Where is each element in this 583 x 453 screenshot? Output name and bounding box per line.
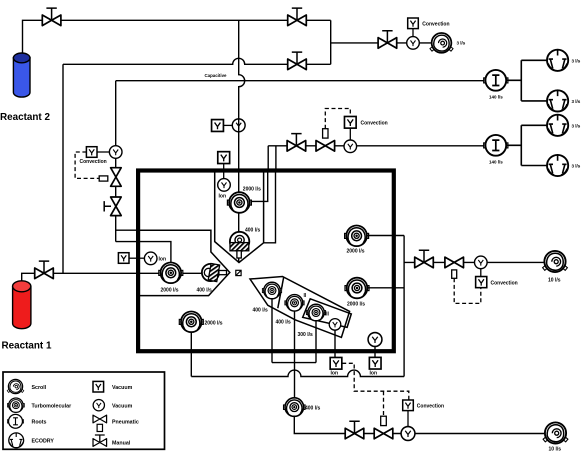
gauge: circle vacuum gauge on column	[109, 146, 122, 159]
pump: chamber turbo right-upper 2000 l/s	[345, 226, 369, 247]
cylinder: Reactant 2 bottle	[13, 53, 30, 97]
svg-text:400 l/s: 400 l/s	[253, 308, 269, 314]
pump: left source turbo 2000 l/s	[159, 263, 183, 284]
svg-text:Ion: Ion	[331, 371, 339, 377]
gauge: square vacuum gauge (Convection) left column	[86, 147, 97, 158]
wire: link convection gauge pair top right	[412, 29, 414, 38]
svg-text:Ion: Ion	[219, 194, 227, 200]
svg-text:Pneumatic: Pneumatic	[112, 419, 139, 425]
pump: detector turbo III 300 l/s	[306, 304, 325, 320]
svg-text:Convection: Convection	[361, 120, 388, 126]
wire: branch y=241.6 to source turbo inlet	[116, 242, 171, 263]
dashed interlock: backing row gauge to pneumatic valve	[325, 109, 350, 129]
gauge: ion gauge left funnel	[144, 252, 157, 265]
valve: manual valve right row	[415, 250, 434, 267]
pump: ecodry pump 1 (3 l/s)	[547, 50, 568, 71]
wire: right pump row y=262.4 to scroll pump	[404, 261, 544, 263]
detector: stage III box	[303, 299, 352, 328]
pump: left 400 l/s pump with hatched flange	[202, 263, 227, 281]
svg-text:10 l/s: 10 l/s	[549, 446, 562, 452]
wire: left wall gauge link	[129, 257, 144, 259]
pump: scroll pump 10 l/s (right)	[543, 251, 568, 272]
cylinder: Reactant 1 bottle	[13, 281, 31, 329]
dashed interlock: convection gauge to pneumatic valve	[75, 152, 99, 178]
detector: stage I/II separator	[278, 277, 284, 308]
svg-text:3 l/s: 3 l/s	[572, 58, 581, 63]
svg-text:400 l/s: 400 l/s	[276, 320, 292, 326]
legend valve: manual valve symbol	[93, 435, 107, 446]
valve: manual valve bottom row	[345, 421, 364, 439]
valve: pneumatic valve right row (actuator below)	[445, 257, 464, 278]
svg-text:2000 l/s: 2000 l/s	[347, 301, 365, 307]
svg-text:2000 l/s: 2000 l/s	[205, 320, 223, 326]
pump: chamber turbo bottom-left 2000 l/s	[179, 312, 203, 333]
svg-text:400 l/s: 400 l/s	[197, 288, 213, 294]
legend valve: pneumatic valve symbol	[93, 415, 107, 431]
legend pump: turbomolecular symbol	[8, 398, 25, 412]
svg-text:3 l/s: 3 l/s	[572, 123, 581, 128]
valve: manual valve on backing row	[287, 134, 306, 152]
pump: detector turbo II 400 l/s	[285, 295, 304, 311]
svg-text:Manual: Manual	[112, 441, 131, 447]
valve V-R1 manual on reactant1 line	[35, 261, 54, 279]
wire: bottom convection gauge link	[407, 411, 409, 427]
node: sample target square	[236, 270, 241, 275]
dashed interlock: ion gauge to bottom pneumatic valve and convection	[342, 363, 409, 416]
wire: branch y=230.2 into chamber (source funnel top)	[116, 229, 211, 231]
wire: top-wall square gauge stem	[223, 164, 225, 179]
gauge: circle vacuum gauge top right	[407, 37, 420, 50]
detector: outer differential stage polygon	[250, 277, 350, 338]
wire: junction drop x=330.7 between parallel valves	[330, 20, 332, 64]
gauge: square ion gauge bottom 1	[330, 357, 342, 369]
svg-text:140 l/s: 140 l/s	[489, 159, 503, 164]
legend gauge: square vacuum gauge	[93, 381, 104, 392]
svg-text:Reactant 2: Reactant 2	[0, 112, 50, 123]
valve V-R2 manual on reactant2 line	[42, 8, 61, 26]
wire: bottom-left turbo drop x=191.3	[190, 332, 192, 377]
wire: link convection gauge to column gauge	[97, 151, 109, 153]
valve: pneumatic valve on backing row	[316, 129, 335, 151]
gauge: square vacuum gauge on left wall	[118, 253, 129, 264]
chamber: main vacuum chamber wall	[138, 171, 394, 352]
wire: roots1 to ecodry pair manifold	[506, 60, 547, 101]
legend pump: scroll symbol	[7, 379, 24, 393]
wire: detector backing bus	[272, 362, 316, 364]
valve: manual valve on pump-out row	[378, 31, 397, 49]
svg-text:Convection: Convection	[422, 21, 449, 27]
gauge: square vacuum gauge (Convection) top right	[408, 18, 419, 29]
gauge: square vacuum gauge (Convection) bottom	[403, 400, 414, 411]
svg-text:Reactant 1: Reactant 1	[2, 340, 52, 351]
svg-text:Roots: Roots	[32, 420, 47, 426]
pump: ecodry pump 3 (3 l/s)	[547, 115, 568, 136]
pump: roots pump 2 (140 l/s)	[484, 135, 508, 156]
wire: backing row y=145.8 from chamber lines to roots pump 2	[268, 145, 485, 147]
gauge: square vacuum gauge (Convection) backing row	[344, 116, 356, 128]
wire: capacitive gauge line y=80.7 to roots pump 1	[116, 80, 485, 82]
wire: pump-out row y=42.9 to scroll pump	[331, 42, 432, 44]
pump: ecodry pump 2 (3 l/s)	[547, 90, 568, 111]
gauge: circle vacuum gauge right row	[475, 256, 488, 269]
gauge: square vacuum gauge on beam line	[212, 120, 224, 132]
svg-text:Convection: Convection	[417, 404, 444, 410]
svg-text:Capacitive: Capacitive	[205, 73, 228, 78]
gauge: circle vacuum gauge on beam line	[232, 119, 245, 132]
wire: reactant2 riser and top header y=20	[23, 20, 331, 53]
svg-text:ECODRY: ECODRY	[32, 439, 55, 445]
wire: bottom row from turbo to scroll pump	[294, 416, 544, 434]
wire: beam line gauge pair link	[224, 124, 233, 126]
pump: detector turbo I 400 l/s	[262, 282, 281, 298]
valve: pneumatic valve bottom row (actuator above)	[374, 416, 393, 439]
gauge: square ion gauge bottom 2	[369, 357, 381, 369]
wire: reactant1 line y=273.3 into chamber	[22, 273, 206, 281]
valve V2 manual (lower parallel)	[288, 52, 307, 70]
wire: source turbo exhaust link x=267.7	[250, 172, 268, 201]
pump: ecodry pump 4 (3 l/s)	[547, 155, 568, 176]
funnel: left source funnel (horizontal)	[140, 230, 230, 295]
gauge: circle vacuum gauge bottom row	[401, 427, 415, 441]
wire: roots2 to ecodry pair manifold	[506, 125, 547, 165]
wire: long bottom return line y=376.5 with jumps	[191, 370, 404, 376]
svg-text:3 l/s: 3 l/s	[572, 99, 581, 104]
wire: detector pump III drop line	[315, 320, 317, 363]
wire: right turbo lower exhaust	[367, 287, 404, 289]
wire: detector pump II drop line	[294, 310, 296, 399]
wire: gas inlet column x=115.7	[115, 81, 117, 242]
wire: beam inlet line x=238.7 with jump over capacitive line	[239, 20, 245, 261]
gauge: circle vacuum gauge backing row	[344, 140, 357, 153]
gauge: circle vacuum gauge stage III	[329, 319, 341, 331]
svg-text:400 l/s: 400 l/s	[305, 405, 321, 411]
svg-text:2000 l/s: 2000 l/s	[243, 187, 261, 193]
pump: scroll pump 3 l/s (top)	[430, 33, 453, 53]
wire: left feed drop x=63 to reactant1 line	[62, 64, 64, 273]
valve: manual valve on column (vertical)	[104, 197, 121, 216]
svg-text:300 l/s: 300 l/s	[298, 332, 314, 338]
gauge: circle vacuum gauge chamber right	[368, 333, 382, 347]
dashed interlock: right row gauge to pneumatic valve	[454, 278, 481, 303]
svg-text:2000 l/s: 2000 l/s	[347, 248, 365, 254]
wire: stage III gauge drop	[334, 330, 336, 358]
valve: pneumatic valve on column (vertical)	[99, 168, 121, 187]
svg-text:Ion: Ion	[370, 371, 378, 377]
svg-text:400 l/s: 400 l/s	[245, 228, 261, 234]
pump: source 400 l/s pump with hatched flange (top funnel)	[230, 232, 249, 258]
funnel: source funnel (top, vertical)	[215, 172, 264, 263]
svg-text:Turbomolecular: Turbomolecular	[32, 404, 72, 410]
wire: chamber right gauge drop	[374, 347, 376, 358]
gauge: ion gauge in source funnel	[218, 179, 231, 192]
wire: right row gauge pair link	[480, 269, 482, 277]
svg-text:140 l/s: 140 l/s	[489, 94, 503, 99]
gauge: square vacuum gauge (Convection) right row	[476, 277, 487, 288]
pump: chamber turbo right-lower 2000 l/s	[345, 278, 369, 299]
wire: parallel bypass line y=64.3 with jump over beam line	[63, 58, 331, 64]
gauge: square vacuum gauge on chamber lid	[218, 152, 230, 164]
legend pump: ecodry symbol	[9, 433, 24, 448]
wire: detector pump I drop line	[271, 298, 273, 363]
svg-text:Convection: Convection	[80, 159, 107, 165]
pump: detector backing turbo 400 l/s (bottom)	[284, 398, 306, 417]
svg-text:2000 l/s: 2000 l/s	[161, 288, 179, 294]
wire: chamber risers x=268.2 and x=275.9	[268, 146, 276, 172]
pump: roots pump 1 (140 l/s)	[484, 70, 508, 91]
svg-text:Convection: Convection	[491, 280, 518, 286]
svg-text:Vacuum: Vacuum	[112, 404, 133, 410]
wire: funnel roughing link x=275.5	[264, 172, 276, 243]
svg-text:III: III	[325, 312, 330, 318]
legend: border box	[3, 372, 165, 449]
wire: right turbo upper exhaust	[367, 235, 404, 237]
svg-text:Ion: Ion	[159, 257, 167, 263]
svg-text:Vacuum: Vacuum	[112, 385, 133, 391]
svg-text:Scroll: Scroll	[32, 385, 47, 391]
pump: scroll pump 10 l/s (bottom)	[543, 422, 568, 443]
svg-text:3 l/s: 3 l/s	[457, 40, 466, 45]
valve V1 manual (upper parallel)	[288, 8, 307, 26]
wire: link square gauge to circle gauge backing row	[349, 128, 351, 140]
svg-text:3 l/s: 3 l/s	[572, 164, 581, 169]
wire: right manifold drop x=404.1	[403, 236, 405, 377]
legend gauge: circle vacuum gauge	[93, 400, 104, 411]
pump: source turbo 2000 l/s (top funnel)	[227, 192, 251, 213]
legend pump: roots symbol	[7, 414, 23, 428]
svg-text:10 l/s: 10 l/s	[548, 277, 561, 283]
